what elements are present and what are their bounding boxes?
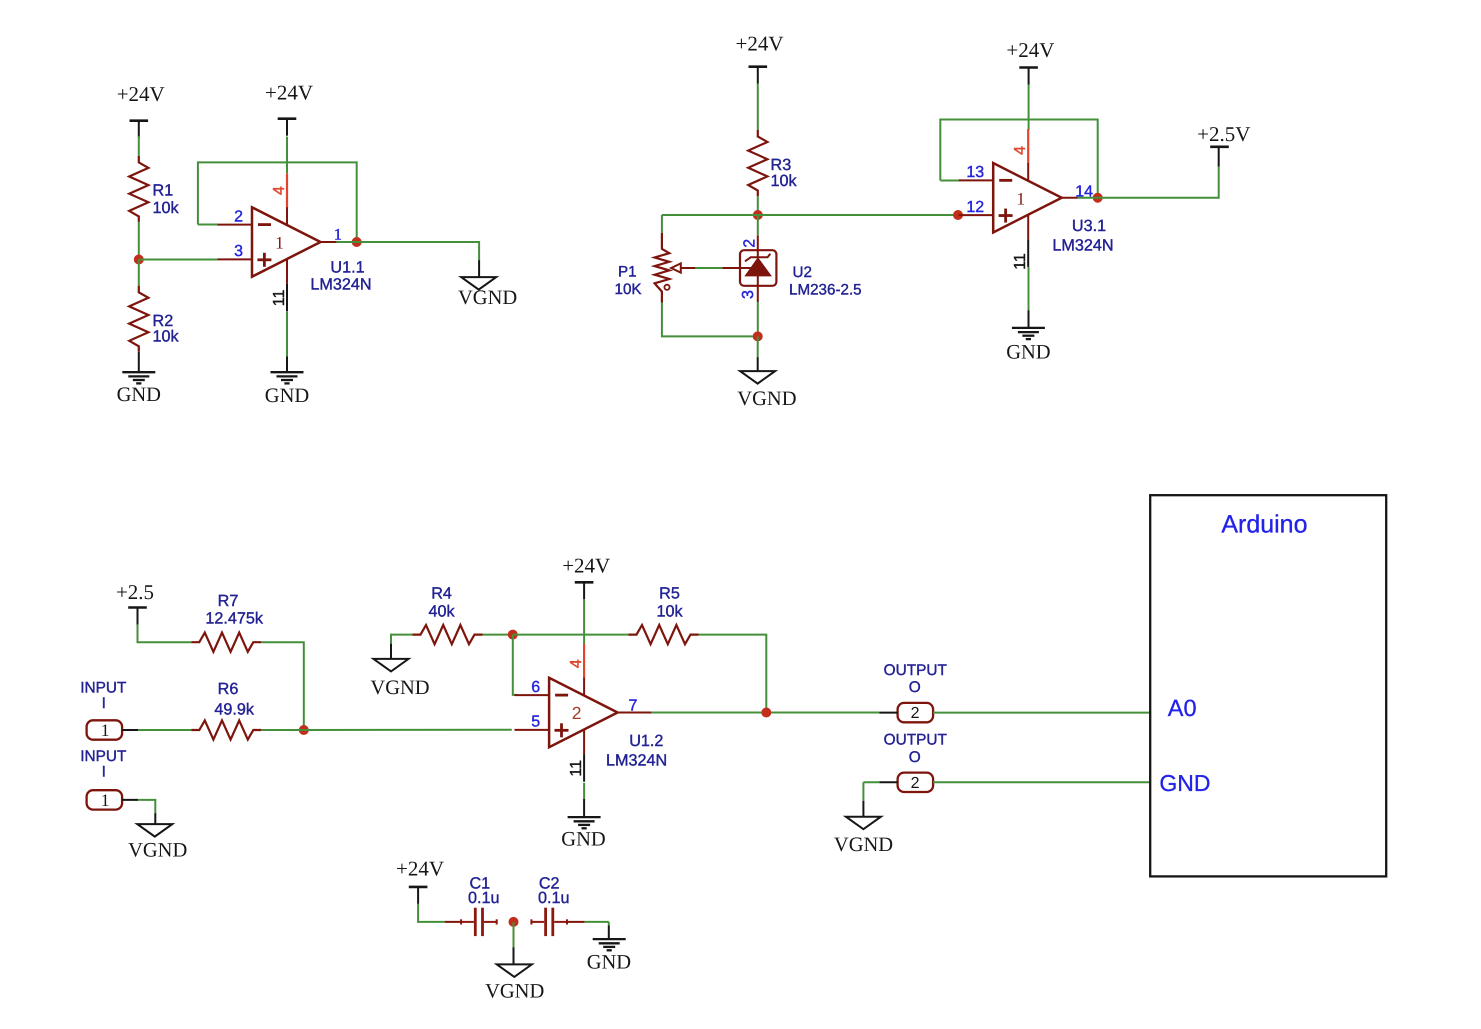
wire pin 11 to GND — [1028, 267, 1030, 310]
wire +24V to pin 4 — [583, 599, 585, 644]
svg-text:GND: GND — [265, 385, 309, 407]
resistor R1 — [129, 156, 148, 222]
connector input 2 — [87, 790, 123, 810]
svg-text:R7: R7 — [218, 592, 239, 610]
wire from VGND symbol — [390, 644, 392, 659]
svg-text:10k: 10k — [153, 199, 180, 217]
ground symbol GND (U1.1 pin 11) — [265, 372, 309, 407]
ground symbol GND (U1.2 pin 11) — [561, 817, 605, 850]
svg-text:2: 2 — [911, 775, 920, 792]
wire to VGND — [863, 781, 879, 783]
capacitor C1 — [461, 908, 497, 936]
op-amp U1.2 — [515, 644, 652, 782]
power symbol VGND (R4) — [370, 659, 429, 699]
svg-text:3: 3 — [740, 290, 757, 299]
svg-text:GND: GND — [587, 952, 631, 974]
power symbol VGND (U1.1 output) — [458, 277, 517, 309]
wire input 2 to VGND — [138, 800, 155, 813]
wire to GND symbol — [286, 356, 288, 372]
junction U1.1 output — [352, 237, 362, 247]
wire feedback loop U3.1 — [940, 120, 1097, 198]
wire R7 to node — [261, 642, 304, 730]
svg-text:4: 4 — [1012, 146, 1029, 155]
svg-text:4: 4 — [568, 659, 585, 668]
svg-text:+24V: +24V — [562, 554, 610, 578]
svg-text:GND: GND — [1159, 770, 1210, 796]
ground symbol GND (U3.1 pin 11) — [1006, 328, 1050, 364]
svg-text:0.1u: 0.1u — [538, 889, 570, 907]
svg-text:VGND: VGND — [737, 388, 796, 410]
wire to VGND symbol — [478, 260, 480, 277]
wire output to Arduino GND — [933, 781, 1150, 783]
power symbol VGND (reference) — [737, 371, 796, 410]
connector pin — [122, 729, 138, 731]
power symbol +2.5V — [1197, 122, 1250, 147]
svg-text:10k: 10k — [771, 172, 798, 190]
power symbol VGND (output) — [834, 817, 893, 856]
wire R5 to output node — [699, 635, 767, 713]
wire U1.2 output — [651, 712, 879, 714]
svg-text:2: 2 — [911, 705, 920, 722]
junction R4/R5/pin6 — [508, 630, 518, 640]
junction U2/P1/VGND — [753, 331, 763, 341]
svg-text:GND: GND — [1006, 342, 1050, 364]
wire — [138, 260, 140, 286]
power symbol +24V (R3) — [735, 31, 783, 83]
op-amp U3.1 — [959, 129, 1078, 267]
power symbol +24V (decoupling) — [396, 856, 444, 904]
svg-text:R5: R5 — [659, 585, 680, 603]
potentiometer P1 — [655, 233, 696, 303]
svg-text:U1.2: U1.2 — [629, 732, 663, 750]
wire to GND — [138, 352, 140, 372]
wire R4 to node — [483, 634, 513, 636]
connector pin — [122, 799, 138, 801]
resistor R2 — [129, 286, 148, 352]
svg-text:10k: 10k — [153, 328, 180, 346]
ground symbol GND (below R2) — [117, 372, 161, 406]
wire — [757, 84, 759, 130]
svg-text:+24V: +24V — [735, 31, 783, 55]
svg-text:P1: P1 — [618, 264, 637, 281]
svg-text:+2.5: +2.5 — [116, 580, 154, 604]
svg-text:INPUT: INPUT — [80, 680, 127, 697]
wire C2 pin — [567, 921, 585, 923]
voltage reference U2 — [722, 236, 776, 302]
wire to GND symbol — [1028, 310, 1030, 328]
wire pin 11 to GND — [286, 311, 288, 356]
wire to P1 — [661, 215, 663, 233]
svg-text:R6: R6 — [218, 680, 239, 698]
svg-text:1: 1 — [101, 720, 110, 740]
wire down to VGND — [862, 782, 864, 801]
svg-text:6: 6 — [531, 679, 540, 696]
svg-text:U2: U2 — [793, 264, 812, 281]
power symbol VGND (decoupling) — [485, 964, 544, 1002]
svg-text:13: 13 — [966, 164, 984, 181]
svg-text:GND: GND — [117, 384, 161, 406]
svg-text:VGND: VGND — [128, 840, 187, 862]
wire to pin 13 — [940, 180, 958, 182]
svg-text:2: 2 — [572, 703, 582, 723]
svg-text:3: 3 — [234, 243, 243, 260]
wire +24V to pin 4 — [286, 137, 288, 174]
svg-text:+24V: +24V — [396, 856, 444, 880]
svg-text:R4: R4 — [431, 585, 452, 603]
resistor R6 — [191, 720, 261, 739]
svg-text:A0: A0 — [1168, 695, 1197, 721]
power symbol +24V (U1.1 supply) — [265, 81, 313, 136]
wire to VGND — [757, 336, 759, 357]
svg-text:I: I — [102, 695, 106, 712]
junction R6/R7/pin5 — [299, 725, 309, 735]
svg-text:10K: 10K — [615, 281, 642, 298]
connector pin — [879, 712, 897, 714]
svg-text:12: 12 — [966, 199, 984, 216]
svg-text:1: 1 — [1016, 188, 1025, 208]
svg-text:+2.5V: +2.5V — [1197, 122, 1250, 146]
power symbol +24V (U3.1 supply) — [1006, 38, 1054, 85]
Arduino block — [1150, 495, 1386, 876]
wire C2 to GND — [585, 921, 609, 923]
wire +24V to pin 4 — [1028, 85, 1030, 130]
power symbol +24V (R1 divider) — [117, 82, 165, 138]
svg-text:VGND: VGND — [370, 677, 429, 699]
svg-text:+24V: +24V — [117, 82, 165, 106]
svg-text:INPUT: INPUT — [80, 748, 127, 765]
wire U1.1 output to VGND — [337, 242, 480, 260]
junction C1/C2/VGND — [509, 917, 519, 927]
wire U2 pin 3 to node — [757, 302, 759, 336]
resistor R3 — [748, 130, 767, 196]
svg-text:OUTPUT: OUTPUT — [884, 662, 948, 679]
svg-text:O: O — [909, 749, 921, 766]
wire C1 pin — [445, 921, 461, 923]
svg-text:11: 11 — [1012, 253, 1029, 270]
svg-text:2: 2 — [234, 208, 243, 225]
op-amp U1.1 — [217, 173, 336, 311]
connector input 1 — [87, 720, 123, 740]
svg-text:U1.1: U1.1 — [330, 259, 364, 277]
svg-text:GND: GND — [561, 829, 605, 851]
connector output A0 — [898, 703, 934, 722]
power symbol +2.5 — [116, 580, 154, 625]
wire P1 bottom — [662, 303, 758, 337]
resistor R4 — [413, 625, 483, 644]
wire to U2 pin 2 — [757, 215, 759, 236]
wire node to R5 — [513, 634, 629, 636]
svg-text:LM236-2.5: LM236-2.5 — [789, 282, 862, 299]
wire to pin 2 — [198, 224, 218, 226]
wire VGND to R4 — [391, 635, 413, 644]
wire R6 to node — [261, 729, 304, 731]
svg-text:1: 1 — [334, 226, 342, 243]
svg-text:+24V: +24V — [265, 81, 313, 105]
connector output GND — [898, 773, 934, 792]
wire junction to VGND — [513, 922, 515, 947]
svg-text:1: 1 — [275, 233, 284, 253]
wire to VGND symbol — [513, 947, 515, 964]
junction R3/P1/U2/pin12 — [753, 210, 763, 220]
wire output to Arduino A0 — [933, 712, 1150, 714]
wire output to +2.5V — [1078, 167, 1219, 198]
junction R1/R2/pin3 — [134, 255, 144, 265]
capacitor C2 — [531, 908, 567, 936]
svg-text:5: 5 — [531, 714, 540, 731]
svg-text:2: 2 — [742, 239, 759, 248]
svg-text:7: 7 — [629, 697, 638, 714]
wire to VGND symbol — [154, 813, 156, 824]
svg-text:12.475k: 12.475k — [205, 610, 264, 628]
ground symbol GND (C2) — [587, 939, 631, 973]
wire junction to pin 3 — [139, 259, 218, 261]
junction output/R5 — [761, 708, 771, 718]
wire node to pin 12 — [662, 214, 958, 216]
wire — [757, 196, 759, 215]
junction pin 12 — [953, 210, 963, 220]
resistor R7 — [191, 633, 261, 652]
svg-text:Arduino: Arduino — [1221, 511, 1307, 539]
wire corner — [608, 922, 610, 926]
resistor R5 — [629, 625, 699, 644]
svg-text:LM324N: LM324N — [1052, 237, 1113, 255]
power symbol VGND (input 2) — [128, 824, 187, 861]
wire pin 11 to GND — [583, 783, 585, 799]
wire to VGND symbol — [862, 801, 864, 817]
svg-text:I: I — [102, 764, 106, 781]
wire input to R6 — [138, 729, 191, 731]
svg-text:R3: R3 — [771, 156, 792, 174]
svg-text:40k: 40k — [429, 602, 456, 620]
svg-text:1: 1 — [101, 790, 110, 810]
wire P1 wiper to U2 — [695, 267, 722, 269]
svg-text:49.9k: 49.9k — [214, 700, 255, 718]
wire to VGND symbol — [757, 357, 759, 371]
wire — [138, 222, 140, 260]
wire +24V to C1 — [418, 904, 445, 922]
wire feedback loop U1.1 — [198, 162, 357, 242]
wire — [138, 136, 140, 156]
svg-text:10k: 10k — [656, 602, 683, 620]
wire to GND symbol — [608, 926, 610, 940]
svg-text:LM324N: LM324N — [606, 751, 667, 769]
svg-text:LM324N: LM324N — [310, 276, 371, 294]
connector pin — [879, 781, 897, 783]
svg-text:R1: R1 — [153, 182, 174, 200]
svg-text:11: 11 — [271, 289, 288, 306]
wire to GND symbol — [583, 799, 585, 817]
wire node to pin 5 — [304, 729, 512, 731]
power symbol +24V (U1.2 supply) — [562, 554, 610, 600]
svg-text:VGND: VGND — [458, 287, 517, 309]
svg-text:O: O — [909, 679, 921, 696]
svg-text:VGND: VGND — [485, 981, 544, 1003]
svg-text:OUTPUT: OUTPUT — [884, 732, 948, 749]
svg-text:VGND: VGND — [834, 834, 893, 856]
svg-text:U3.1: U3.1 — [1072, 217, 1106, 235]
junction U3.1 output — [1093, 193, 1103, 203]
wire to +2.5V symbol — [1218, 147, 1220, 167]
wire node down to pin 6 — [513, 635, 517, 695]
svg-text:11: 11 — [568, 760, 585, 777]
svg-text:+24V: +24V — [1006, 38, 1054, 62]
wire +2.5 to R7 — [138, 624, 192, 642]
svg-text:0.1u: 0.1u — [468, 889, 500, 907]
svg-text:4: 4 — [271, 186, 288, 195]
